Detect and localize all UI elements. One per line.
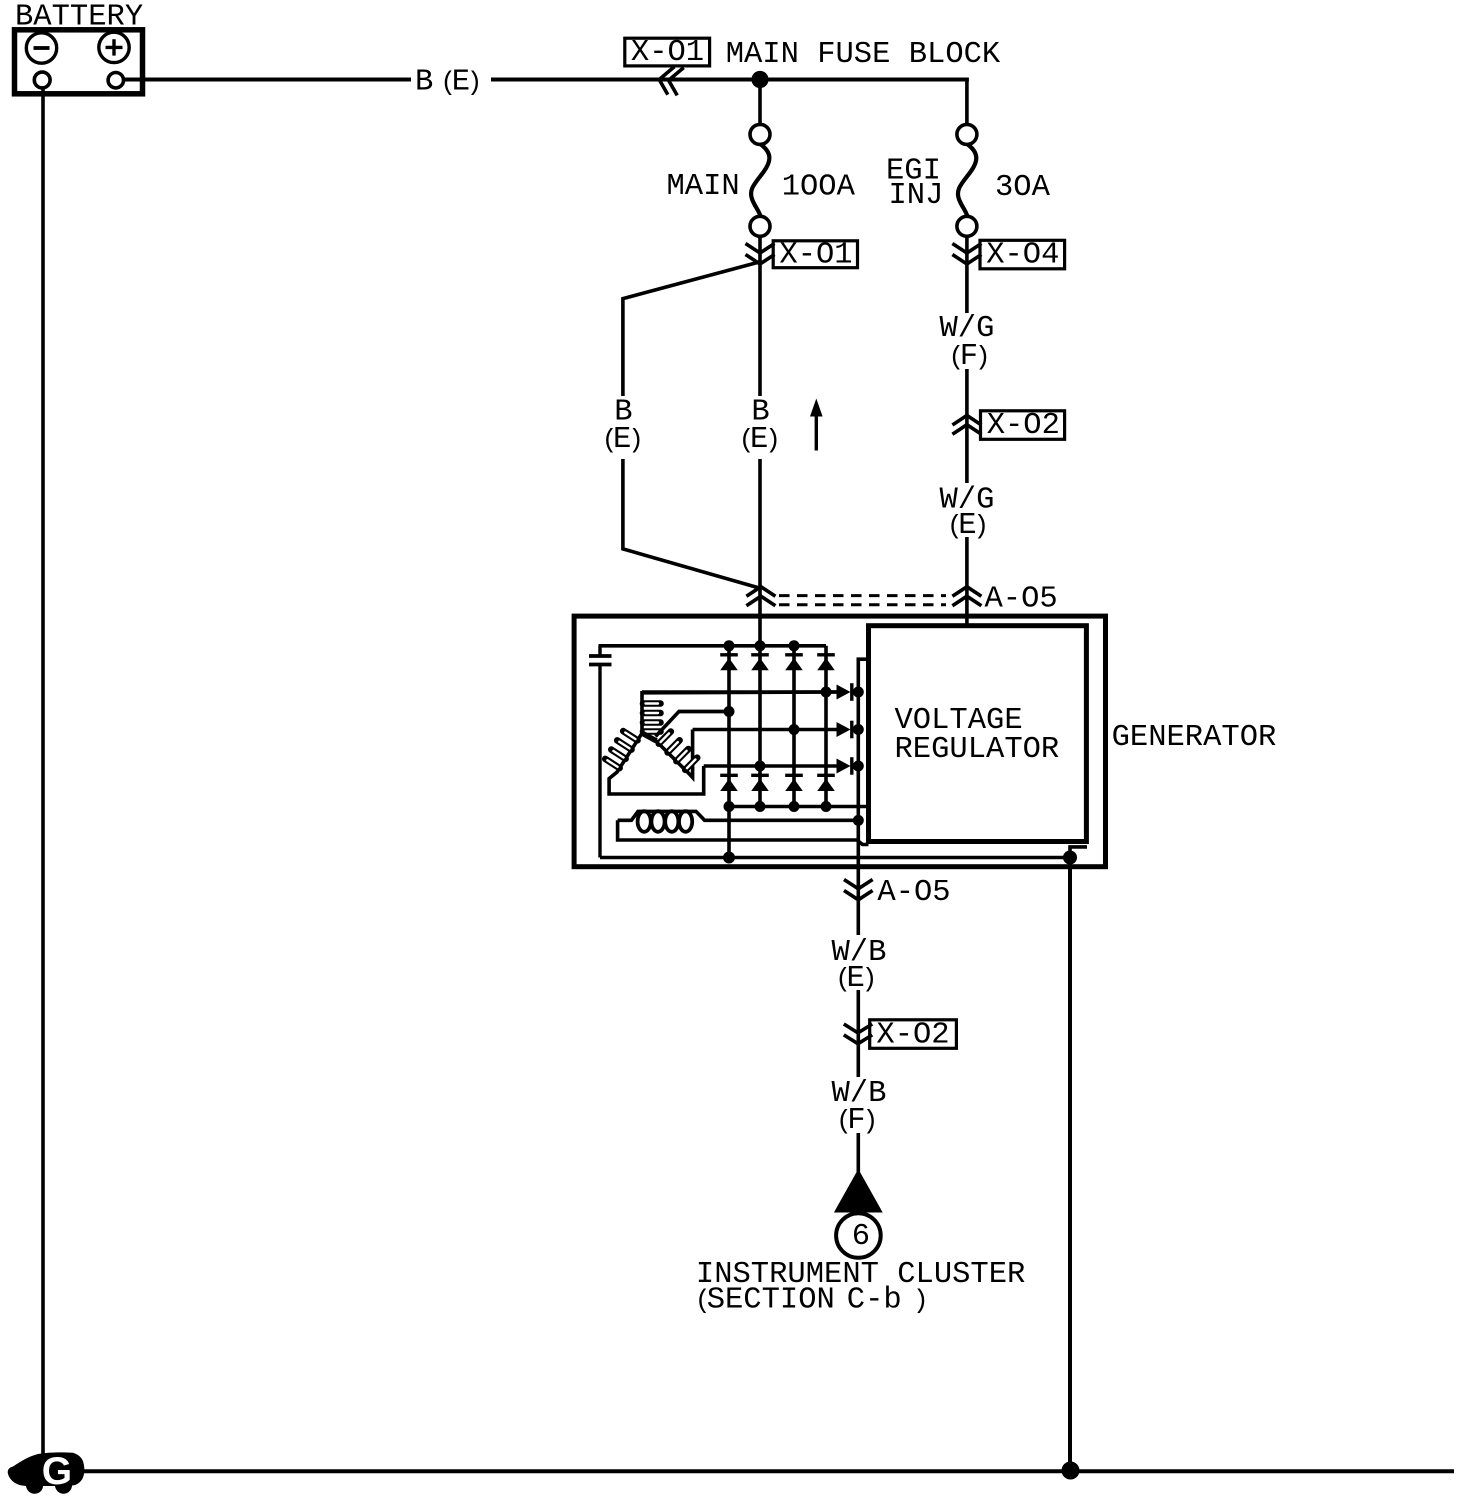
fuse MAIN 100A: [750, 124, 770, 236]
arrow to instrument cluster: [834, 1169, 883, 1213]
wire battery positive to main fuse block: [124, 78, 412, 82]
svg-text:(E): (E): [835, 962, 877, 996]
diode D10 trio2: [837, 721, 852, 739]
wire ground stub to regulator corner: [1070, 847, 1087, 858]
field coil L1: [618, 811, 859, 832]
svg-text:X-O1: X-O1: [631, 36, 704, 70]
wire battery negative to ground: [41, 88, 45, 1455]
stator coil S3 right: [654, 730, 698, 778]
wire bottom rail: [729, 805, 866, 809]
connector X-04: [952, 238, 1064, 272]
diode D7 bottom col3: [785, 775, 803, 791]
wire neutral tap line: [678, 710, 729, 714]
wire B(E) continues to junction: [491, 78, 969, 82]
svg-text:B(E): B(E): [415, 66, 482, 100]
svg-text:(E): (E): [739, 423, 781, 457]
wire below EGI fuse: [965, 236, 969, 313]
voltage regulator U1 box: [869, 626, 1087, 842]
svg-text:GENERATOR: GENERATOR: [1112, 721, 1277, 755]
ground symbol G body ground: [8, 1450, 85, 1494]
wire rectifier column 1: [727, 646, 731, 807]
connector A-05 left chevrons: [746, 587, 775, 606]
wire rectifier column 2: [758, 646, 762, 807]
wire right down to EGI fuse: [965, 80, 969, 125]
node circle 6: [836, 1213, 881, 1258]
node phase2 dots: [789, 724, 800, 735]
wire chassis ground bus: [80, 1469, 1454, 1473]
svg-text:1OOA: 1OOA: [782, 171, 856, 205]
node neutral dot: [724, 706, 735, 717]
svg-text:3OA: 3OA: [995, 171, 1051, 205]
wire W/B to instrument cluster: [856, 1133, 860, 1172]
svg-text:A-O5: A-O5: [985, 583, 1058, 617]
stator vertex bar: [641, 733, 657, 742]
diode D4 top col4: [817, 655, 835, 671]
svg-text:6: 6: [852, 1220, 870, 1254]
node ground bus junction: [1062, 1462, 1080, 1480]
svg-text:REGULATOR: REGULATOR: [895, 733, 1060, 767]
node field junction dot: [853, 815, 864, 826]
stator coil S1 vertical: [642, 692, 837, 733]
battery B1: [15, 30, 143, 94]
capacitor C1: [589, 646, 612, 858]
wire trio output rail to regulator: [858, 659, 866, 820]
diode D9 trio1: [837, 683, 852, 701]
svg-text:(E): (E): [602, 423, 644, 457]
connector X-01 top: [625, 36, 710, 95]
generator internals group continues in part 2: [574, 616, 1276, 867]
arrow up symbol: [810, 399, 823, 451]
diode D1 top col1: [720, 655, 738, 671]
diode D2 top col2: [751, 655, 769, 671]
svg-text:INJ: INJ: [889, 179, 944, 213]
svg-text:MAIN: MAIN: [667, 170, 740, 204]
stator coil S2 left: [605, 731, 703, 794]
diode D3 top col3: [785, 655, 803, 671]
wire internal ground line: [600, 856, 1070, 860]
svg-text:(F): (F): [949, 340, 991, 374]
wire phase line 3: [704, 764, 837, 768]
node top rail dots: [724, 640, 735, 651]
stator neutral tap diagonal: [656, 712, 730, 737]
fuse EGI INJ 30A: [957, 124, 977, 236]
A-05 dashed connector lines: [779, 594, 946, 597]
generator box: [574, 616, 1105, 867]
wire middle B(E) continues: [758, 459, 762, 646]
wire W/B middle segment: [856, 990, 860, 1077]
wire rectifier column 4: [824, 646, 828, 807]
wire phase line 2: [693, 728, 837, 732]
connector A-05 right chevrons: [952, 587, 981, 606]
svg-text:(F): (F): [836, 1104, 878, 1138]
wire junction down to MAIN fuse: [758, 80, 762, 125]
svg-text:X-O2: X-O2: [987, 409, 1060, 443]
connector X-02 upper: [952, 409, 1064, 443]
connector X-01 below fuse: [746, 238, 858, 272]
diode D6 bottom col2: [751, 775, 769, 791]
svg-text:A-O5: A-O5: [877, 876, 950, 910]
node junction at fuse block feed: [751, 71, 768, 88]
connector A-05 lower chevrons: [844, 880, 873, 900]
wire generator ground down to chassis: [1068, 858, 1072, 1471]
wire top rail B+: [599, 644, 827, 648]
svg-text:MAIN FUSE BLOCK: MAIN FUSE BLOCK: [726, 38, 1001, 72]
wire W/G upper segment: [965, 369, 969, 483]
node ground end dot: [1063, 851, 1077, 865]
wire left branch B(E): [623, 262, 759, 396]
node ground col1 dot: [723, 852, 735, 864]
connector X-02 lower: [844, 1018, 957, 1052]
svg-text:G: G: [42, 1450, 72, 1493]
svg-text:X-O1: X-O1: [779, 238, 852, 272]
node phase3 dots: [755, 761, 766, 772]
svg-text:X-O4: X-O4: [986, 238, 1059, 272]
wire phase line 1: [642, 690, 837, 694]
diode D8 bottom col4: [817, 775, 835, 791]
diode D11 trio3: [837, 757, 852, 775]
wire below MAIN fuse: [758, 236, 762, 396]
svg-text:(SECTIONC-b): (SECTIONC-b): [695, 1284, 929, 1318]
node bottom rail dots: [724, 801, 735, 812]
node phase1 dots: [821, 687, 832, 698]
wire field return to regulator: [618, 820, 869, 844]
wire regulator L output down (W/B): [856, 820, 860, 935]
svg-text:X-O2: X-O2: [876, 1018, 949, 1052]
wire rectifier column 3: [792, 646, 796, 807]
wire col1 extension to ground line: [727, 807, 731, 858]
diode D5 bottom col1: [720, 775, 738, 791]
wire W/G lower segment into generator: [965, 537, 969, 625]
